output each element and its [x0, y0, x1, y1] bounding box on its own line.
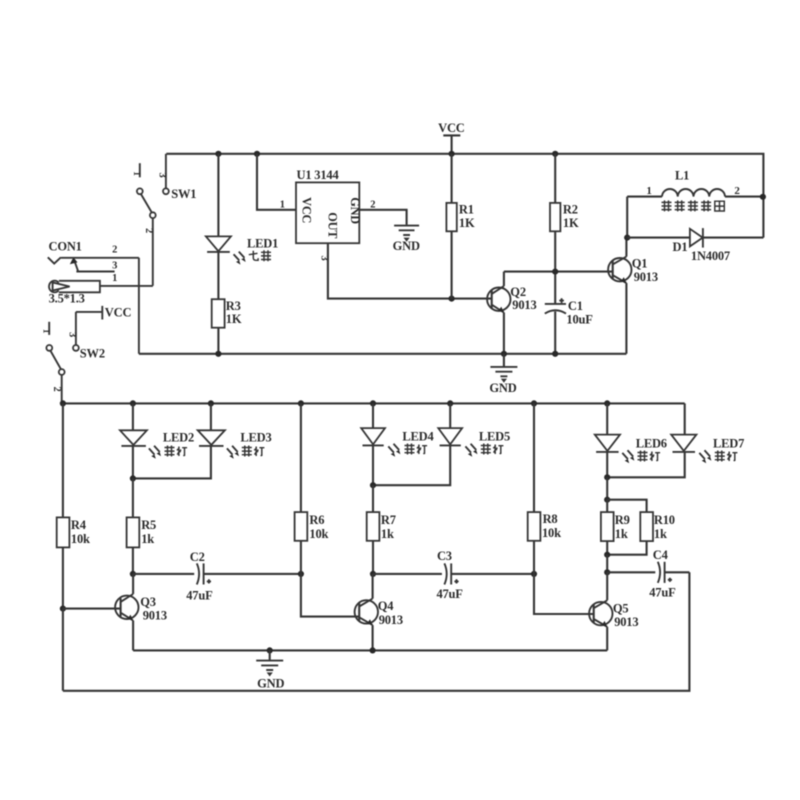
wire C4 feedback to bottom rail — [63, 572, 690, 691]
svg-text:1: 1 — [40, 329, 50, 334]
node junction L1 pin1 / Q1 collector / D1 — [624, 235, 630, 241]
svg-text:1K: 1K — [226, 312, 242, 326]
wire LED anode rail — [63, 402, 685, 404]
switch SW1 — [131, 154, 196, 286]
svg-text:D1: D1 — [673, 240, 688, 254]
wire R9 bottom to collector node — [606, 555, 608, 573]
svg-text:1: 1 — [646, 185, 651, 197]
svg-text:Q2: Q2 — [510, 285, 526, 299]
svg-text:CON1: CON1 — [49, 240, 82, 254]
resistor R4 10k — [57, 403, 90, 608]
node junction C2 / R6 / Q4 base wire — [298, 571, 304, 577]
svg-text:GND: GND — [489, 381, 516, 395]
svg-text:C4: C4 — [653, 548, 669, 562]
svg-text:10k: 10k — [71, 532, 90, 546]
wire top VCC rail — [166, 154, 763, 238]
resistor R2 1K — [550, 154, 579, 304]
node junction LED4-LED5 / R7 — [370, 482, 376, 488]
node junction LED2-LED3 / R5 — [130, 475, 136, 481]
svg-text:9013: 9013 — [379, 613, 403, 627]
svg-text:OUT: OUT — [325, 212, 339, 239]
node junction top rail / U1 pin1 — [254, 151, 260, 157]
svg-text:C3: C3 — [437, 549, 452, 563]
resistor R3 1K — [212, 299, 242, 354]
LED LED3 红灯 — [133, 403, 272, 478]
LED LED7 绿灯 — [607, 403, 744, 477]
resistor R9 1k — [601, 500, 630, 555]
LED LED6 绿灯 — [595, 403, 667, 477]
svg-text:10k: 10k — [309, 527, 328, 541]
node junction LED6-LED7 — [604, 474, 610, 480]
LED LED2 红灯 — [120, 403, 194, 478]
resistor R5 1k — [127, 478, 156, 574]
transistor Q5 9013 — [589, 572, 638, 650]
svg-text:R8: R8 — [543, 512, 558, 526]
connector CON1 3.5mm jack — [48, 240, 153, 354]
power VCC (left) — [76, 305, 132, 345]
resistor R8 10k — [528, 403, 594, 614]
svg-text:R9: R9 — [615, 513, 630, 527]
capacitor C2 47uF — [133, 550, 301, 603]
svg-text:3: 3 — [156, 172, 167, 177]
svg-text:LED1: LED1 — [247, 237, 278, 251]
node junction rail / LED2 — [130, 400, 136, 406]
node junction pin3/R1/Q2 base — [449, 296, 455, 302]
svg-text:Q5: Q5 — [613, 601, 629, 615]
svg-text:9013: 9013 — [634, 270, 658, 284]
svg-text:1: 1 — [112, 273, 117, 284]
svg-text:47uF: 47uF — [649, 585, 676, 599]
wire left feedback vertical — [62, 609, 64, 691]
svg-text:2: 2 — [51, 386, 62, 391]
svg-text:LED7: LED7 — [713, 436, 744, 450]
node junction R7 / Q4 collector / C3 — [370, 571, 376, 577]
wire emitter rail — [133, 649, 607, 651]
diode D1 1N4007 — [627, 228, 763, 263]
svg-text:47uF: 47uF — [186, 589, 213, 603]
ground GND (top section) — [489, 354, 517, 395]
svg-text:2: 2 — [370, 199, 375, 210]
transistor Q4 9013 — [355, 574, 403, 651]
svg-text:1: 1 — [131, 171, 141, 176]
svg-text:3.5*1.3: 3.5*1.3 — [49, 292, 85, 306]
resistor R7 1k — [367, 485, 396, 574]
wire Q2 collector to Q1 base — [504, 271, 613, 273]
svg-text:GND: GND — [393, 239, 420, 253]
node junction rail / LED3 — [208, 400, 214, 406]
svg-text:Q4: Q4 — [378, 599, 395, 613]
LED LED5 黄灯 — [373, 403, 510, 485]
svg-text:Q3: Q3 — [140, 595, 156, 609]
node junction R9/R10 top — [604, 497, 610, 503]
node junction emitter rail / GND — [267, 647, 273, 653]
node junction rail / R8 — [531, 400, 537, 406]
svg-text:LED4: LED4 — [402, 429, 434, 443]
node junction R4 / Q3 base / feedback — [60, 606, 66, 612]
node junction Q5 collector / C4 — [604, 569, 610, 575]
svg-text:R6: R6 — [309, 513, 324, 527]
resistor R10 1k (parallel) — [607, 500, 675, 555]
IC U1 3144 hall sensor — [257, 154, 492, 299]
svg-text:R5: R5 — [141, 518, 156, 532]
node junction rail / LED4 — [370, 400, 376, 406]
LED LED4 黄灯 — [361, 403, 434, 485]
svg-text:R3: R3 — [226, 299, 241, 313]
svg-text:L1: L1 — [675, 169, 689, 183]
svg-text:10uF: 10uF — [566, 312, 593, 326]
node junction rail / R6 — [298, 400, 304, 406]
resistor R6 10k — [295, 403, 360, 616]
svg-text:1k: 1k — [381, 527, 394, 541]
svg-text:2: 2 — [143, 228, 154, 233]
svg-text:SW2: SW2 — [80, 347, 105, 361]
inductor L1 磁悬浮线圈 — [627, 169, 763, 238]
node junction top rail / VCC R1 — [449, 151, 455, 157]
node junction rail / LED6 — [604, 400, 610, 406]
svg-text:1K: 1K — [563, 216, 579, 230]
svg-text:U1 3144: U1 3144 — [297, 168, 340, 182]
svg-text:9013: 9013 — [512, 298, 536, 312]
power VCC (top) — [438, 121, 465, 154]
resistor R1 1K — [446, 154, 475, 299]
LED LED1 七彩 — [206, 154, 278, 299]
node junction top rail / R2 — [552, 151, 558, 157]
node junction R9/R10 bottom — [604, 552, 610, 558]
node junction C3 / R8 — [531, 571, 537, 577]
node junction L1 pin2 / rail — [760, 194, 766, 200]
svg-text:2: 2 — [734, 185, 740, 197]
svg-text:LED5: LED5 — [479, 429, 510, 443]
transistor Q2 9013 — [487, 272, 536, 354]
svg-text:1K: 1K — [459, 216, 475, 230]
svg-text:1k: 1k — [654, 527, 667, 541]
svg-text:9013: 9013 — [143, 609, 167, 623]
svg-text:C1: C1 — [568, 299, 583, 313]
svg-text:1: 1 — [280, 199, 285, 210]
svg-text:3: 3 — [112, 260, 117, 271]
svg-text:9013: 9013 — [614, 615, 638, 629]
svg-text:VCC: VCC — [438, 121, 465, 135]
svg-text:R10: R10 — [654, 513, 675, 527]
svg-text:1k: 1k — [615, 527, 628, 541]
svg-text:1N4007: 1N4007 — [691, 249, 730, 263]
switch SW2 — [40, 322, 105, 404]
node junction emitter rail / Q4 emitter — [370, 647, 376, 653]
node junction lower rail / R3 — [215, 351, 221, 357]
svg-text:Q1: Q1 — [632, 257, 648, 271]
svg-text:VCC: VCC — [300, 197, 314, 223]
wire LED6 to R9 R10 — [606, 477, 608, 499]
capacitor C1 10uF — [545, 298, 593, 354]
svg-text:10k: 10k — [542, 526, 561, 540]
svg-text:2: 2 — [112, 245, 117, 256]
svg-text:R4: R4 — [71, 518, 87, 532]
svg-text:3: 3 — [66, 332, 77, 337]
transistor Q3 9013 — [63, 574, 167, 651]
node junction lower rail / C1 — [552, 351, 558, 357]
ground GND (bottom) — [256, 650, 284, 690]
node junction R5 / Q3 collector / C2 — [130, 571, 136, 577]
svg-text:LED2: LED2 — [163, 431, 194, 445]
svg-text:SW1: SW1 — [171, 187, 196, 201]
svg-text:R2: R2 — [563, 203, 578, 217]
ground GND (U1 pin2) — [393, 226, 420, 253]
wire lower rail (emitter/ground of top section) — [139, 353, 627, 355]
svg-text:LED3: LED3 — [240, 431, 271, 445]
svg-text:C2: C2 — [190, 550, 205, 564]
node junction rail / SW2-R4 — [60, 400, 66, 406]
svg-text:R1: R1 — [459, 203, 474, 217]
node junction rail / LED5 — [447, 400, 453, 406]
capacitor C3 47uF — [373, 549, 534, 601]
svg-text:GND: GND — [257, 677, 284, 691]
node junction collector wire / R2-C1 — [552, 269, 558, 275]
svg-text:R7: R7 — [381, 513, 396, 527]
svg-text:VCC: VCC — [105, 305, 132, 319]
capacitor C4 47uF — [607, 548, 689, 599]
transistor Q1 9013 — [608, 238, 658, 354]
node junction lower rail / Q2 emitter — [501, 351, 507, 357]
node junction top rail / LED1 — [215, 151, 221, 157]
svg-text:1k: 1k — [141, 532, 154, 546]
svg-text:47uF: 47uF — [436, 587, 463, 601]
svg-text:LED6: LED6 — [636, 436, 667, 450]
